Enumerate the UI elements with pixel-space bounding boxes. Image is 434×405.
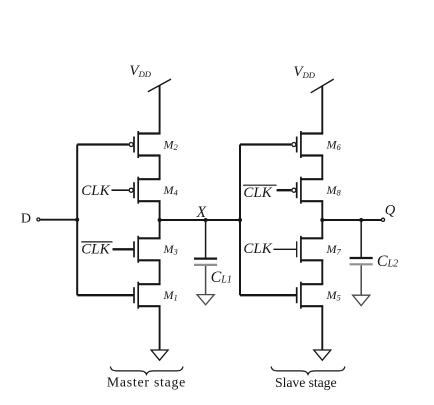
node stack2 junction <box>320 218 324 222</box>
svg-text:Q: Q <box>385 203 396 219</box>
wire M4 source to node X rail <box>159 201 161 220</box>
brace slave stage <box>271 367 345 375</box>
svg-text:D: D <box>21 212 31 227</box>
wire rail to M3 drain <box>159 220 161 238</box>
svg-text:M3: M3 <box>163 242 178 257</box>
node D junction <box>75 218 79 222</box>
ground (CL1) <box>197 295 214 305</box>
node stack1 junction <box>158 218 162 222</box>
label CLKbar (M8 gate) <box>243 185 276 201</box>
transistor M4 (PMOS, CLK) <box>112 177 179 204</box>
capacitor CL1 <box>194 259 232 286</box>
node X <box>196 204 208 222</box>
brace master stage <box>110 367 182 375</box>
transistor M5 (NMOS) <box>240 282 341 309</box>
terminal Q <box>381 203 395 222</box>
transistor M6 (PMOS) <box>240 131 342 158</box>
svg-text:CL1: CL1 <box>211 269 232 286</box>
svg-text:M8: M8 <box>326 183 342 198</box>
svg-text:M4: M4 <box>163 183 179 198</box>
wire D input <box>40 219 77 221</box>
svg-text:Master stage: Master stage <box>107 375 185 390</box>
wire X to CL1 <box>205 220 207 258</box>
svg-text:CLK: CLK <box>81 242 110 258</box>
wire VDD2 to M6 drain <box>321 86 323 133</box>
svg-text:M7: M7 <box>326 242 342 257</box>
svg-text:M6: M6 <box>326 137 342 152</box>
transistor M1 (NMOS) <box>77 282 178 309</box>
svg-text:CLK: CLK <box>243 185 272 201</box>
transistor M2 (PMOS) <box>77 131 178 158</box>
wire M8 source to Q rail <box>321 201 323 220</box>
svg-text:M1: M1 <box>163 288 178 303</box>
wire VDD to M2 drain <box>159 85 161 133</box>
master gate bus wire <box>76 145 78 296</box>
slave gate bus wire <box>239 145 241 296</box>
wire Q node to CL2 <box>360 220 362 257</box>
ground (CL2) <box>353 295 370 305</box>
svg-text:M2: M2 <box>163 137 179 152</box>
wire M1 source to ground <box>159 306 161 350</box>
wire CL1 to ground <box>205 266 207 295</box>
ground (master stack) <box>151 350 168 360</box>
terminal D <box>21 212 40 227</box>
wire Q rail <box>322 219 381 221</box>
wire rail to M7 drain <box>321 220 323 238</box>
svg-text:Slave stage: Slave stage <box>275 375 337 390</box>
svg-text:CLK: CLK <box>81 183 110 199</box>
wire M5 source to ground <box>321 306 323 350</box>
transistor M8 (PMOS, CLKbar) <box>277 177 342 204</box>
VDD supply symbol master <box>129 63 171 92</box>
wire X rail <box>160 219 240 221</box>
wire M2 source to M4 drain <box>159 156 161 180</box>
svg-text:VDD: VDD <box>293 64 315 80</box>
capacitor CL2 <box>350 253 399 270</box>
wire M6 source to M8 drain <box>321 156 323 180</box>
svg-text:M5: M5 <box>326 288 341 303</box>
svg-text:CL2: CL2 <box>377 253 398 270</box>
ground (slave stack) <box>314 350 331 360</box>
transistor M3 (NMOS, CLKbar) <box>113 236 178 263</box>
wire CL2 to ground <box>360 265 362 295</box>
wire M3 source to M1 drain <box>159 260 161 284</box>
transistor M7 (NMOS, CLK) <box>273 236 341 263</box>
svg-text:VDD: VDD <box>129 63 151 79</box>
label CLKbar (M3 gate) <box>81 242 112 258</box>
svg-text:CLK: CLK <box>243 241 272 257</box>
node slave bus junction <box>238 218 242 222</box>
VDD supply symbol slave <box>293 64 333 93</box>
wire M7 source to M5 drain <box>321 260 323 284</box>
node CL2 junction <box>359 218 363 222</box>
